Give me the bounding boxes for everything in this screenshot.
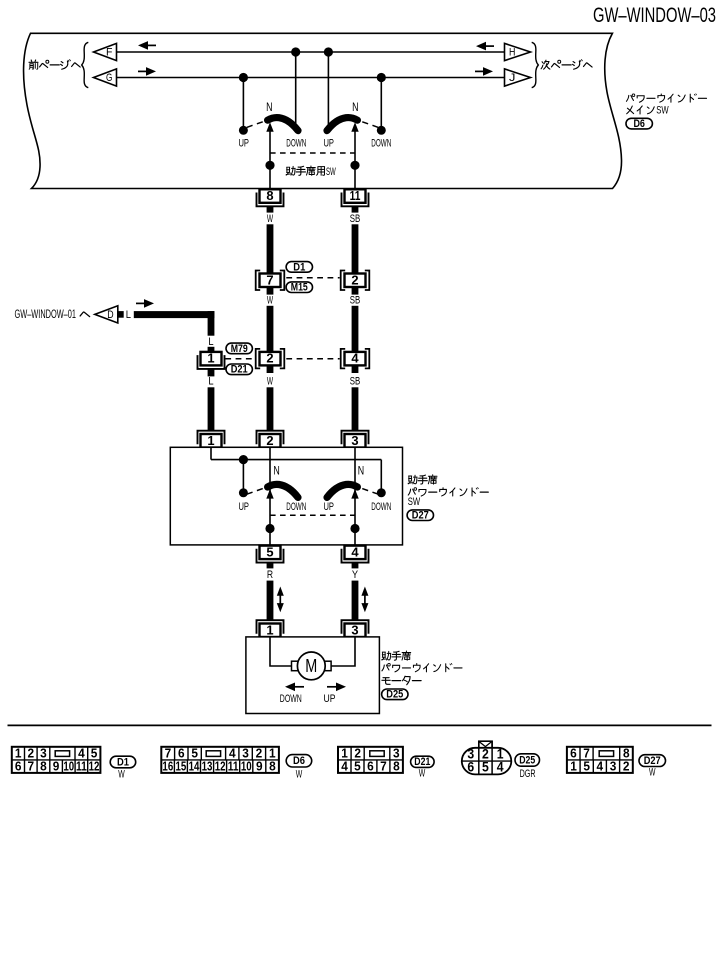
- svg-text:G: G: [106, 72, 112, 84]
- svg-text:SB: SB: [350, 294, 361, 306]
- svg-text:15: 15: [176, 759, 187, 774]
- triangle D stub: [117, 311, 124, 318]
- label joshuseki-yo SW: [286, 166, 295, 175]
- svg-text:13: 13: [202, 759, 213, 774]
- svg-text:5: 5: [482, 760, 489, 775]
- svg-text:M79: M79: [231, 343, 248, 355]
- svg-text:Y: Y: [352, 569, 359, 581]
- pin 8 of D6: [257, 193, 284, 207]
- wire F row: [117, 51, 505, 53]
- svg-text:GW–WINDOW–03: GW–WINDOW–03: [593, 4, 716, 27]
- svg-text:11: 11: [76, 759, 87, 774]
- svg-text:4: 4: [351, 544, 359, 559]
- connector triangle J: [505, 69, 531, 86]
- svg-text:16: 16: [162, 759, 173, 774]
- main sw passenger switch 1: [247, 118, 298, 132]
- double arrow Y wire: [364, 594, 366, 606]
- node sw1 wiper junction: [265, 161, 274, 170]
- svg-text:7: 7: [266, 272, 273, 287]
- label assist power window SW: [408, 475, 417, 484]
- d27 sw2 DOWN contact dot: [377, 488, 386, 497]
- svg-text:4: 4: [341, 759, 348, 774]
- svg-text:UP: UP: [238, 501, 249, 513]
- pin 3 of D27: [342, 431, 369, 445]
- motor terminal right: [323, 661, 332, 671]
- oval M79: [226, 343, 252, 354]
- separator line: [8, 724, 712, 726]
- svg-text:SW: SW: [408, 496, 421, 508]
- oval D25 right of block: [382, 689, 408, 700]
- connector triangle H: [505, 43, 531, 60]
- node rail junction: [239, 455, 248, 464]
- svg-text:D25: D25: [386, 689, 403, 701]
- svg-text:2: 2: [266, 351, 273, 366]
- svg-text:8: 8: [393, 759, 400, 774]
- power window main switch body D6: [24, 33, 622, 188]
- assist sw switch 1: [247, 484, 298, 498]
- svg-text:W: W: [267, 376, 274, 388]
- svg-text:W: W: [267, 294, 274, 306]
- oval D1: [286, 262, 312, 273]
- oval D27 right of block: [407, 510, 433, 521]
- svg-text:2: 2: [623, 759, 630, 774]
- svg-text:8: 8: [40, 759, 47, 774]
- svg-text:4: 4: [597, 759, 604, 774]
- sw2 DOWN contact dot: [377, 126, 386, 135]
- wire SB (to D21-4): [352, 306, 359, 352]
- svg-text:3: 3: [610, 759, 617, 774]
- connector D1-M15 pin 7: [256, 271, 261, 291]
- dashed link pin1 to pin2: [225, 358, 255, 360]
- svg-text:4: 4: [351, 351, 359, 366]
- svg-text:SB: SB: [350, 376, 361, 388]
- svg-text:11: 11: [350, 188, 361, 203]
- connector face D6 16-pin: [161, 747, 279, 773]
- svg-text:7: 7: [380, 759, 387, 774]
- svg-text:7: 7: [27, 759, 34, 774]
- svg-text:6: 6: [15, 759, 22, 774]
- connector D21 pin 2: [256, 349, 261, 369]
- node G-row junction 1: [239, 73, 248, 82]
- svg-text:9: 9: [53, 759, 60, 774]
- wire L (to D27-1): [208, 387, 215, 430]
- svg-text:9: 9: [256, 759, 263, 774]
- main sw passenger switch 2: [327, 118, 378, 132]
- assist power window motor body D25: [246, 637, 380, 714]
- wire F junction to sw1 DOWN contact: [295, 52, 297, 129]
- connector triangle F: [94, 43, 117, 60]
- label mae-page-e (to previous page): [29, 60, 38, 69]
- pin 2 of D27: [257, 431, 284, 445]
- wire R (to motor): [267, 581, 274, 621]
- svg-text:D6: D6: [633, 118, 645, 130]
- svg-text:UP: UP: [238, 137, 249, 149]
- svg-text:R: R: [267, 569, 273, 581]
- assist power window switch body D27: [170, 447, 402, 545]
- svg-text:J: J: [509, 72, 515, 84]
- label assist power window motor: [382, 651, 391, 660]
- pin 2 lower stub: [352, 287, 359, 295]
- wire F junction to sw2 UP side: [327, 52, 329, 129]
- connector D1-M15 pin 2: [341, 271, 346, 291]
- oval D6 main sw: [626, 118, 652, 129]
- dashed link pin2 to pin4: [286, 358, 339, 360]
- wire pin1 internal down: [210, 447, 212, 459]
- oval D6 bottom: [286, 755, 312, 767]
- sw1 UP contact dot: [239, 126, 248, 135]
- svg-text:N: N: [358, 463, 364, 477]
- svg-text:L: L: [126, 309, 131, 321]
- svg-text:11: 11: [228, 759, 239, 774]
- arrow UP direction: [327, 686, 336, 688]
- svg-text:D21: D21: [231, 364, 248, 376]
- svg-text:3: 3: [351, 622, 358, 637]
- svg-text:N: N: [273, 463, 279, 477]
- assist sw switch 2: [327, 484, 378, 498]
- right brace: [532, 42, 539, 87]
- svg-text:6: 6: [367, 759, 374, 774]
- svg-text:DGR: DGR: [520, 768, 536, 780]
- svg-text:1: 1: [207, 433, 214, 448]
- wire W (to D27-2): [267, 387, 274, 430]
- svg-text:5: 5: [266, 544, 273, 559]
- svg-text:1: 1: [266, 622, 273, 637]
- node F-row junction 1: [291, 47, 300, 56]
- svg-text:DOWN: DOWN: [371, 137, 391, 149]
- arrow left near H: [486, 45, 494, 47]
- connector face D27 8-pin: [567, 747, 633, 773]
- pin 3 of motor: [342, 620, 369, 634]
- wire internal rail: [211, 459, 381, 461]
- wire G junction to sw2 DOWN contact: [380, 78, 382, 129]
- svg-text:10: 10: [63, 759, 74, 774]
- svg-text:4: 4: [497, 760, 504, 775]
- oval D25 bottom: [515, 754, 540, 766]
- svg-text:UP: UP: [323, 137, 334, 149]
- label tsugi-page-e (to next page): [541, 60, 550, 69]
- svg-text:L: L: [208, 376, 213, 388]
- arrow DOWN direction: [295, 686, 304, 688]
- oval M15: [286, 282, 312, 293]
- pin 2 lower stub: [267, 365, 274, 373]
- pin 5 stub: [267, 562, 274, 569]
- pin 7 lower stub: [267, 287, 274, 295]
- svg-text:1: 1: [570, 759, 577, 774]
- svg-text:SW: SW: [656, 105, 669, 117]
- d27 mechanical link dashed: [270, 514, 355, 516]
- node sw2 wiper junction: [350, 161, 359, 170]
- wire G row: [117, 77, 505, 79]
- svg-text:D25: D25: [519, 754, 535, 766]
- svg-text:W: W: [118, 768, 125, 780]
- wire Y (to motor): [352, 581, 359, 621]
- pin 1 of motor: [257, 620, 284, 634]
- dashed link D1-M15: [286, 277, 339, 279]
- svg-text:8: 8: [269, 759, 276, 774]
- svg-text:D1: D1: [117, 756, 129, 768]
- oval D27 bottom: [639, 755, 666, 767]
- double arrow R wire: [279, 594, 281, 606]
- svg-text:SB: SB: [350, 213, 361, 225]
- pin 1 lower stub: [208, 369, 215, 377]
- node G-row junction 2: [377, 73, 386, 82]
- node d27 sw1 wiper junction: [265, 524, 274, 533]
- wire pin3 wiper through: [354, 447, 356, 545]
- svg-text:W: W: [649, 767, 656, 779]
- pin 5 of D27: [257, 549, 284, 563]
- svg-text:H: H: [509, 46, 515, 58]
- svg-text:1: 1: [207, 351, 214, 366]
- wire W (to D21-2): [267, 306, 274, 352]
- connector triangle D: [95, 306, 118, 323]
- motor terminal left: [292, 661, 301, 671]
- connector face D1 12-pin: [12, 747, 101, 773]
- pin 4 of D27: [342, 549, 369, 563]
- node d27 sw2 wiper junction: [350, 524, 359, 533]
- pin 11 stub: [352, 206, 359, 213]
- svg-text:D6: D6: [293, 755, 305, 767]
- wire rail end to sw2 DOWN: [380, 460, 382, 491]
- sw1 wiper wire down: [269, 129, 271, 189]
- svg-text:M15: M15: [291, 282, 308, 294]
- arrow right above L wire: [136, 302, 144, 304]
- left brace: [82, 42, 89, 87]
- wire motor pin1 internal: [270, 637, 292, 666]
- wire SB (pin11 to D1-2): [352, 224, 359, 273]
- svg-text:5: 5: [583, 759, 590, 774]
- node F-row junction 2: [324, 47, 333, 56]
- wire L horizontal: [134, 311, 215, 318]
- svg-text:W: W: [267, 213, 274, 225]
- connector triangle G: [94, 69, 117, 86]
- svg-text:D21: D21: [414, 756, 430, 768]
- wire L vertical corner: [208, 311, 215, 336]
- svg-text:D27: D27: [644, 755, 661, 767]
- svg-text:3: 3: [351, 433, 358, 448]
- wire motor pin3 internal: [331, 637, 355, 666]
- svg-text:6: 6: [467, 760, 474, 775]
- svg-text:M: M: [305, 656, 317, 676]
- svg-text:14: 14: [189, 759, 200, 774]
- d27 sw1 UP contact dot: [239, 488, 248, 497]
- oval D21 bottom: [411, 756, 435, 767]
- svg-text:W: W: [419, 768, 426, 780]
- svg-text:DOWN: DOWN: [280, 693, 302, 705]
- pin 4 stub: [352, 562, 359, 569]
- connector face D25 6-pin oval: [479, 741, 492, 748]
- svg-text:5: 5: [354, 759, 361, 774]
- svg-text:F: F: [106, 46, 113, 58]
- svg-text:UP: UP: [324, 693, 336, 705]
- svg-text:12: 12: [215, 759, 226, 774]
- wire G junction to sw1 UP contact: [242, 78, 244, 129]
- label power window main SW: [626, 94, 634, 101]
- svg-text:D27: D27: [412, 510, 429, 522]
- svg-text:GW–WINDOW–01: GW–WINDOW–01: [15, 307, 77, 321]
- sw2 wiper wire down: [354, 129, 356, 189]
- wire pin2 wiper through: [269, 447, 271, 545]
- svg-text:DOWN: DOWN: [286, 501, 306, 513]
- svg-text:D: D: [107, 309, 114, 321]
- wire rail to sw1 UP: [242, 460, 244, 491]
- svg-text:12: 12: [89, 759, 100, 774]
- svg-text:DOWN: DOWN: [286, 137, 306, 149]
- wire SB (to D27-3): [352, 387, 359, 430]
- pin 1 of D27: [198, 431, 225, 445]
- svg-text:W: W: [296, 768, 303, 780]
- svg-text:2: 2: [351, 272, 358, 287]
- connector D21 pin 4: [341, 349, 346, 369]
- svg-text:D1: D1: [293, 261, 305, 273]
- svg-text:UP: UP: [323, 501, 334, 513]
- oval D1 bottom: [110, 756, 136, 768]
- mechanical link dashed: [270, 152, 355, 154]
- arrow left on F row: [148, 44, 156, 46]
- connector M79-D21 pin 1: [198, 355, 225, 369]
- svg-text:8: 8: [266, 188, 273, 203]
- svg-text:L: L: [208, 336, 213, 348]
- pin 4 lower stub: [352, 365, 359, 373]
- motor M circle: [297, 652, 325, 680]
- arrow right near J: [475, 70, 483, 72]
- wire W (pin8 to D1-7): [267, 224, 274, 273]
- M79 stub upper: [208, 347, 215, 352]
- pin 8 stub: [267, 206, 274, 213]
- connector face D21 8-pin: [338, 747, 403, 773]
- arrow right on G row: [138, 70, 146, 72]
- pin 11 of D6: [342, 193, 369, 207]
- svg-text:10: 10: [241, 759, 252, 774]
- svg-text:DOWN: DOWN: [371, 501, 391, 513]
- svg-text:N: N: [266, 100, 272, 114]
- oval D21: [226, 364, 252, 375]
- svg-text:N: N: [352, 100, 358, 114]
- svg-text:2: 2: [266, 433, 273, 448]
- svg-text:SW: SW: [326, 166, 336, 178]
